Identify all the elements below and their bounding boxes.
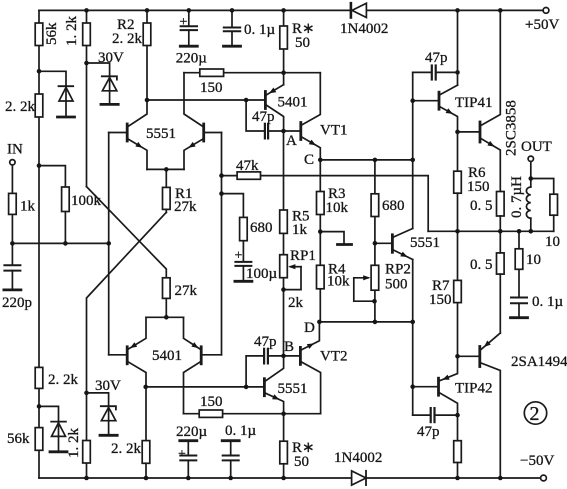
- svg-text:1. 2k: 1. 2k: [64, 16, 80, 47]
- wire diagonal B (R1 bottom to lower 1.2k chain): [87, 212, 167, 478]
- svg-text:2k: 2k: [288, 295, 304, 311]
- diode VD3 (bottom left): [50, 422, 67, 452]
- wire VAS collector column x=412.7 (upper): [412, 72, 414, 228]
- svg-text:B: B: [284, 339, 294, 355]
- resistor 1k (input): [9, 193, 17, 214]
- resistor 0.5 (bottom): [497, 253, 505, 274]
- svg-text:5551: 5551: [278, 381, 308, 397]
- svg-text:0. 5: 0. 5: [470, 198, 493, 214]
- wire R7 column: [457, 231, 459, 356]
- wire TIP42 collector to rail: [457, 463, 459, 479]
- svg-text:1k: 1k: [20, 199, 36, 215]
- transistor VT1: [301, 73, 321, 160]
- svg-text:5401: 5401: [278, 95, 308, 111]
- wire base left bottom pair: [109, 354, 128, 356]
- svg-text:RP2: RP2: [385, 262, 411, 278]
- svg-text:TIP42: TIP42: [455, 381, 493, 397]
- resistor R6 150: [454, 171, 462, 193]
- wire IN lead: [11, 165, 13, 265]
- transistor TIP41: [439, 85, 458, 171]
- wire 47p tap (top): [246, 100, 264, 131]
- capacitor 47p (VT1): [265, 124, 284, 139]
- wire tail to R1: [165, 169, 167, 187]
- svg-text:5551: 5551: [146, 126, 176, 142]
- svg-text:RP1: RP1: [290, 248, 316, 264]
- wire 150 bottom link: [184, 413, 321, 415]
- transistor VT2: [300, 322, 320, 414]
- svg-text:0. 1µ: 0. 1µ: [225, 423, 257, 439]
- svg-text:TIP41: TIP41: [455, 95, 493, 111]
- svg-text:150: 150: [200, 80, 223, 96]
- svg-text:100µ: 100µ: [246, 266, 278, 282]
- svg-text:5401: 5401: [152, 348, 182, 364]
- svg-text:1. 2k: 1. 2k: [66, 428, 82, 459]
- wire VAS emitter column x=412.7 (lower): [412, 260, 414, 416]
- wire node to VT1 collector: [284, 72, 321, 74]
- resistor 150 (top): [200, 69, 224, 76]
- resistor 1.2k (bottom): [83, 441, 91, 464]
- wire node B to VT2 base: [284, 355, 301, 357]
- wire R* column top x=283.6: [283, 10, 285, 84]
- svg-text:56k: 56k: [7, 431, 30, 447]
- svg-text:27k: 27k: [174, 199, 197, 215]
- wire base right top pair: [204, 132, 222, 134]
- wire left column x=39: [38, 10, 40, 478]
- wire R2 column x=147: [146, 10, 148, 100]
- resistor 680 (VAS): [371, 194, 379, 217]
- svg-text:IN: IN: [7, 142, 23, 158]
- capacitor 47p (VT2): [246, 349, 283, 387]
- transistor Q2a 5401 (bottom pair left): [127, 317, 146, 440]
- resistor R* 50 (bottom): [280, 441, 288, 464]
- resistor R3 10k: [317, 192, 325, 215]
- svg-text:10k: 10k: [326, 200, 349, 216]
- wire input riser x=108.7: [108, 133, 110, 355]
- capacitor 47p (TIP42): [413, 408, 458, 422]
- transistor Q4 5551 (pre-driver bottom): [264, 356, 283, 441]
- svg-text:2. 2k: 2. 2k: [112, 31, 143, 47]
- wire bottom -50V rail left of diode: [39, 477, 351, 479]
- svg-text:500: 500: [385, 277, 408, 293]
- wire damper resistor branch: [531, 179, 554, 195]
- wire TIP42 base: [413, 386, 439, 388]
- svg-text:1k: 1k: [292, 222, 308, 238]
- svg-text:C: C: [304, 152, 314, 168]
- wire 680 VAS branch: [374, 160, 376, 322]
- svg-text:56k: 56k: [44, 22, 60, 45]
- resistor R7 150: [454, 280, 462, 302]
- terminal IN: [10, 160, 15, 165]
- capacitor 47p (TIP41): [413, 66, 458, 80]
- wire 680 feedback branch: [222, 194, 244, 262]
- svg-text:2. 2k: 2. 2k: [48, 372, 79, 388]
- wire 2.2k to rail: [145, 463, 147, 478]
- transistor Q1a 5551 (top pair left): [127, 100, 147, 169]
- wire 150 top link: [184, 72, 284, 74]
- wire R* bottom to rail: [283, 464, 285, 478]
- resistor R5 1k: [280, 210, 288, 233]
- resistor 100k: [62, 187, 70, 212]
- wire diagonal A (1.2k chain to 27k bottom): [87, 187, 167, 278]
- svg-text:A: A: [286, 133, 297, 149]
- capacitor 220u (bottom): [180, 441, 197, 478]
- transistor Q2b 5401 (bottom pair right): [184, 317, 202, 413]
- capacitor 0.1u (top): [224, 10, 241, 46]
- transistor 2SA1494: [480, 333, 501, 478]
- wire 10 bottom: [553, 215, 555, 231]
- resistor R2 2.2k: [143, 23, 151, 46]
- svg-text:10k: 10k: [327, 274, 350, 290]
- wire base right bottom pair: [201, 354, 221, 356]
- resistor 56k (bottom left): [35, 428, 43, 451]
- transistor 2SC3858: [480, 10, 500, 191]
- wire top +50V rail left of diode: [39, 9, 351, 11]
- diode D2 1N4002 (bottom): [352, 471, 366, 485]
- resistor 56k (top left): [35, 23, 43, 46]
- wire 2SA1494 base: [458, 355, 480, 357]
- inductor 0.7uH: [526, 187, 530, 231]
- wire R6 to out rail: [457, 193, 459, 231]
- diode VD1 (upper left): [58, 86, 75, 117]
- transistor Q3 5401 (pre-driver top): [265, 85, 283, 131]
- resistor R* 50 (top): [280, 26, 288, 49]
- wire to diode VD3: [39, 406, 59, 420]
- wire 0.5 top to rail: [499, 216, 501, 231]
- capacitor 220p: [4, 265, 21, 290]
- svg-text:D: D: [304, 320, 315, 336]
- svg-text:2SA1494: 2SA1494: [511, 354, 567, 370]
- wire output rail: [428, 230, 554, 232]
- capacitor 100u: [235, 262, 252, 281]
- svg-text:150: 150: [200, 394, 223, 410]
- svg-text:0. 1µ: 0. 1µ: [532, 294, 564, 310]
- wire zobel branch: [518, 231, 520, 297]
- svg-text:27k: 27k: [175, 283, 198, 299]
- svg-text:150: 150: [467, 179, 490, 195]
- wire 2SC3858 base: [458, 131, 481, 133]
- wire top pair emitter bus: [147, 168, 184, 170]
- capacitor 0.1u (zobel): [511, 298, 528, 318]
- resistor (TIP42 collector): [454, 441, 462, 463]
- label circled 2: [524, 402, 546, 425]
- svg-text:47p: 47p: [425, 50, 448, 66]
- svg-text:VT2: VT2: [320, 349, 348, 365]
- wire bottom pair emitter bus: [146, 316, 184, 318]
- svg-text:VT1: VT1: [320, 123, 348, 139]
- wire TIP41 collector column: [457, 10, 459, 85]
- resistor 47k: [237, 172, 260, 179]
- svg-text:10: 10: [545, 234, 560, 250]
- resistor 2.2k (upper left): [35, 94, 43, 117]
- wire node A to VT1 base: [284, 130, 301, 132]
- terminal OUT: [528, 156, 533, 161]
- svg-text:+: +: [178, 447, 186, 462]
- ground symbol: [320, 232, 351, 245]
- diode D1 1N4002 (top): [351, 3, 367, 17]
- svg-text:47p: 47p: [417, 424, 440, 440]
- potentiometer RP2: [354, 265, 379, 301]
- wire 27k to bottom pair tail: [165, 298, 167, 317]
- svg-text:2: 2: [530, 403, 540, 425]
- svg-text:30V: 30V: [95, 378, 121, 394]
- resistor 680 (feedback): [240, 217, 248, 240]
- wire VAS base: [375, 242, 393, 244]
- svg-text:680: 680: [382, 198, 405, 214]
- svg-text:47k: 47k: [236, 158, 259, 174]
- wire input node horizontal: [12, 242, 108, 244]
- resistor 1.2k (top): [83, 23, 91, 46]
- zener 30V (bottom): [100, 406, 117, 435]
- wire node A to R5 column: [283, 131, 285, 356]
- svg-text:30V: 30V: [98, 50, 124, 66]
- wire base left top pair: [109, 132, 128, 134]
- wire 0.5 bottom leads: [499, 231, 501, 253]
- svg-text:50: 50: [295, 35, 310, 51]
- wire base net y=100 (top): [147, 99, 265, 101]
- terminal -50V: [541, 475, 547, 481]
- potentiometer RP1: [280, 255, 301, 290]
- svg-text:10: 10: [526, 252, 541, 268]
- wire to zener 30V bottom: [87, 393, 109, 406]
- wire feedback riser x=221.5: [221, 133, 223, 355]
- resistor 27k (lower center): [163, 278, 171, 299]
- wire to diode VD1: [39, 71, 66, 85]
- zener 30V (top): [101, 76, 118, 104]
- wire node D rail: [319, 321, 412, 323]
- svg-text:47p: 47p: [254, 334, 277, 350]
- svg-text:50: 50: [294, 454, 309, 470]
- svg-text:+: +: [180, 15, 188, 30]
- wire TIP41 base: [413, 100, 439, 102]
- resistor 2.2k (below left collector): [142, 441, 150, 464]
- svg-text:2SC3858: 2SC3858: [504, 100, 520, 156]
- svg-text:47p: 47p: [252, 109, 275, 125]
- wire OUT lead: [530, 162, 532, 187]
- wire R3 column from C: [319, 160, 321, 322]
- wire top +50V rail right of diode: [366, 9, 543, 11]
- resistor 150 (bottom): [199, 410, 222, 417]
- wire R1 bottom stub: [165, 209, 167, 212]
- svg-text:0. 5: 0. 5: [470, 257, 493, 273]
- svg-text:−50V: −50V: [520, 453, 554, 469]
- resistor 10 (zobel): [515, 249, 523, 269]
- resistor 0.5 (top): [497, 192, 505, 217]
- resistor 2.2k (lower left): [35, 367, 43, 388]
- svg-text:1N4002: 1N4002: [334, 450, 382, 466]
- wire 47k feedback: [222, 176, 429, 232]
- resistor 10 (parallel coil): [550, 194, 558, 215]
- svg-text:2. 2k: 2. 2k: [111, 441, 142, 457]
- svg-text:0. 1µ: 0. 1µ: [244, 22, 276, 38]
- svg-text:+: +: [235, 249, 243, 264]
- terminal +50V: [543, 7, 549, 13]
- svg-text:680: 680: [250, 220, 273, 236]
- wire base net y=386.9 (bottom): [146, 386, 265, 388]
- capacitor 0.1u (bottom): [222, 441, 239, 478]
- transistor VAS 5551: [392, 229, 412, 260]
- svg-text:0. 7µH: 0. 7µH: [509, 176, 525, 218]
- transistor TIP42: [439, 356, 458, 440]
- wire node C rail: [320, 159, 412, 161]
- svg-text:220µ: 220µ: [176, 424, 208, 440]
- wire column x=86.5 upper: [86, 10, 88, 186]
- resistor R1 27k: [163, 187, 171, 209]
- wire 100k top connection: [39, 166, 65, 244]
- svg-text:+50V: +50V: [525, 17, 559, 33]
- transistor Q1b 5551 (top pair right): [184, 73, 204, 170]
- svg-text:100k: 100k: [71, 193, 102, 209]
- svg-text:220µ: 220µ: [176, 51, 208, 67]
- svg-text:220p: 220p: [2, 295, 32, 311]
- wire to zener 30V top: [87, 63, 110, 76]
- svg-text:2. 2k: 2. 2k: [5, 99, 36, 115]
- resistor R4 10k: [317, 265, 325, 289]
- svg-text:5551: 5551: [410, 235, 440, 251]
- svg-text:OUT: OUT: [521, 139, 552, 155]
- svg-text:150: 150: [429, 292, 452, 308]
- svg-text:1N4002: 1N4002: [340, 21, 388, 37]
- capacitor 220u (top): [180, 10, 197, 46]
- wire bottom -50V rail right of diode: [366, 477, 541, 479]
